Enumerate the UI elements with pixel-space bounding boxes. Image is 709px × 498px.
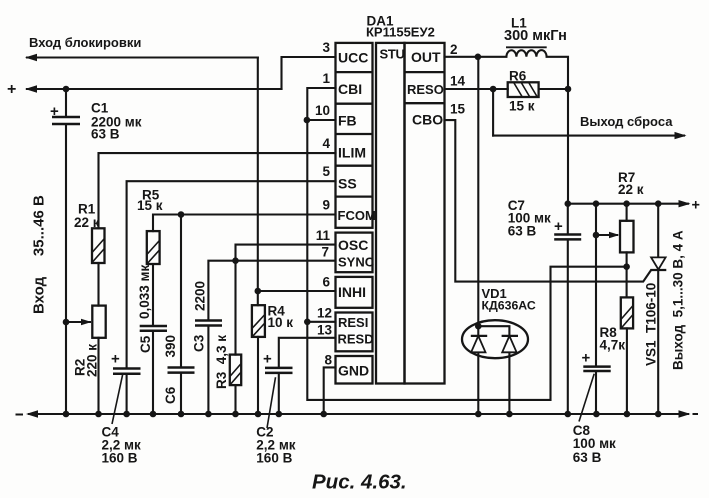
resistor R4	[252, 305, 265, 337]
arrow: blocking input left arrowhead	[25, 54, 37, 61]
capacitor C4	[113, 369, 141, 374]
node: R2 wiper junction	[63, 319, 70, 326]
svg-text:R6: R6	[509, 69, 527, 84]
node: bus VD1 left	[475, 411, 482, 418]
svg-text:22 к: 22 к	[74, 215, 100, 230]
svg-text:Вход 35...46 В: Вход 35...46 В	[31, 195, 48, 314]
svg-text:2200: 2200	[193, 281, 208, 311]
svg-text:С6: С6	[163, 386, 178, 404]
resistor R2 (potentiometer)	[92, 306, 105, 338]
svg-text:15 к: 15 к	[137, 198, 163, 213]
node: bus C7	[565, 411, 572, 418]
wire: C6 branch	[180, 215, 182, 415]
op-amp U1: IC DA1 left pin cell stack UCC..FCOM	[336, 43, 373, 228]
inductor L1 label underline	[506, 46, 547, 48]
op-amp U1: IC DA1 STU middle column	[376, 43, 405, 384]
arrow: bus left arrowhead	[26, 410, 38, 417]
svg-text:Вход блокировки: Вход блокировки	[29, 35, 141, 50]
svg-text:С3: С3	[192, 334, 207, 352]
wire: SYNC pin 7 line to C3	[208, 261, 335, 414]
svg-text:+: +	[692, 198, 700, 214]
arrow: bus right arrowhead	[679, 410, 691, 417]
wire: +input line	[27, 88, 282, 90]
node: input junction C1	[63, 86, 70, 93]
diode VD1 left triangle	[471, 336, 485, 352]
wire: R7 bottom lead to divider node	[626, 252, 628, 266]
wire: R7 wiper arrow line	[596, 234, 617, 236]
wire: minus dash bottom right	[693, 413, 699, 415]
node: output/C7 junction	[565, 200, 572, 207]
op-amp U1: IC DA1 right column	[405, 43, 445, 384]
wire: R8 leads	[626, 267, 628, 414]
wire: R3 bottom to bus	[234, 385, 236, 414]
wire: ILIM pin 4 line to R1 top	[99, 153, 336, 228]
diode VD1 right triangle	[502, 336, 516, 352]
wire: FCOM pin 9 line to R5/C6	[153, 215, 336, 232]
svg-text:63 В: 63 В	[573, 450, 602, 465]
wire: GND pin 8 to bus	[324, 367, 336, 414]
svg-text:22 к: 22 к	[618, 182, 644, 197]
capacitor C6	[168, 368, 195, 373]
node: VD1 cathode junction	[475, 323, 482, 330]
capacitor C1	[52, 117, 80, 124]
svg-text:КД636АС: КД636АС	[482, 299, 536, 313]
wire: +output line	[568, 203, 688, 205]
wire: R1 to R2 link	[97, 263, 99, 306]
wire: SS pin 5 line to C4	[127, 181, 336, 414]
diode VD1 right half cathode bar	[502, 335, 518, 337]
node: L1/R6 right junction	[565, 86, 572, 93]
wire: minus dash bottom left	[16, 414, 24, 416]
node: bus R8	[624, 411, 631, 418]
svg-text:2: 2	[450, 42, 458, 57]
svg-text:+: +	[111, 351, 120, 368]
svg-text:КР1155ЕУ2: КР1155ЕУ2	[366, 25, 435, 40]
wire: OUT pin 2 to L1	[445, 56, 507, 58]
op-amp U1: IC DA1 INHI cell	[336, 277, 373, 308]
node: output/VS1 junction	[655, 200, 662, 207]
svg-text:STU: STU	[380, 47, 405, 62]
svg-text:RESD: RESD	[338, 332, 374, 347]
wire: R2 wiper from ground line	[66, 321, 90, 323]
wire: RESO pin 14 line to R6	[445, 88, 508, 90]
svg-text:0,033 мк: 0,033 мк	[137, 264, 152, 319]
svg-text:RESI: RESI	[338, 315, 368, 330]
svg-text:1: 1	[322, 71, 330, 86]
node: output/R7 junction	[623, 200, 630, 207]
svg-text:UCC: UCC	[338, 50, 368, 66]
wire: OUT down to VD1 cathodes	[477, 57, 479, 336]
arrow: reset output arrowhead	[675, 132, 687, 139]
svg-text:10 к: 10 к	[268, 315, 294, 330]
svg-text:Рис. 4.63.: Рис. 4.63.	[312, 471, 407, 494]
resistor R3	[230, 355, 241, 386]
wire: R7 wiper column to C8	[595, 204, 597, 414]
svg-text:INHI: INHI	[338, 284, 366, 300]
node: INHI/R4 junction	[254, 288, 261, 295]
node: SYNC/R3 junction	[232, 257, 239, 264]
svg-text:10: 10	[315, 103, 330, 118]
node: FCOM/C6 junction	[178, 211, 185, 218]
svg-text:+: +	[50, 103, 59, 120]
arrow: +input left arrowhead	[25, 85, 37, 92]
svg-text:7: 7	[321, 245, 329, 260]
svg-text:С5: С5	[138, 335, 153, 353]
resistor R1	[92, 228, 105, 263]
svg-text:6: 6	[322, 275, 330, 290]
node: bus C4	[123, 411, 130, 418]
resistor R5	[147, 231, 160, 264]
wire: ground bus	[29, 413, 688, 415]
wire: blocking input vertical down to INHI	[257, 58, 259, 292]
wire: +input rise to UCC pin 3	[282, 57, 336, 89]
wire: CBO pin 15 to thyristor gate	[445, 120, 651, 282]
svg-text:160 В: 160 В	[102, 451, 138, 466]
wire: L1 to corner and down to output line	[547, 57, 568, 204]
transistor VS1 (thyristor) cathode bar	[650, 269, 666, 271]
arrow: R2 wiper arrowhead	[81, 319, 92, 326]
wire: INHI pin 6 line	[258, 290, 336, 292]
resistor R7 (potentiometer)	[620, 221, 634, 253]
node: bus R4	[255, 411, 262, 418]
svg-text:12: 12	[317, 306, 332, 321]
svg-text:15 к: 15 к	[509, 99, 535, 114]
node: R7/R8 divider junction	[623, 263, 630, 270]
wire: VD1 anode legs to bus	[478, 352, 509, 414]
svg-text:100 мк: 100 мк	[573, 436, 616, 451]
svg-text:220 к: 220 к	[85, 344, 100, 377]
svg-text:OUT: OUT	[411, 49, 441, 65]
svg-text:4,7к: 4,7к	[600, 338, 626, 353]
wire: C4 label leader	[112, 374, 123, 424]
wire: R5 to C5 link	[152, 264, 154, 414]
svg-text:160 В: 160 В	[256, 451, 292, 466]
node: R7 wiper branch junction	[593, 232, 600, 239]
wire: VS1 cathode lead	[657, 270, 659, 414]
node: output/R7 wiper junction	[593, 200, 600, 207]
wire: C7 branch	[567, 204, 569, 414]
resistor R8	[621, 297, 633, 328]
svg-text:8: 8	[324, 353, 332, 368]
node: bus GND pin	[320, 411, 327, 418]
node: RESI junction	[304, 319, 311, 326]
svg-text:Выход сброса: Выход сброса	[580, 114, 673, 129]
wire: R7 top lead	[626, 204, 628, 221]
wire: VS1 anode lead	[657, 204, 659, 258]
wire: reset output drop	[492, 89, 494, 136]
node: bus C8	[593, 411, 600, 418]
op-amp U1: IC DA1 GND cell	[336, 356, 373, 384]
node: bus C5	[150, 411, 157, 418]
wire: Вход блокировки input line	[27, 56, 258, 58]
svg-text:SS: SS	[338, 176, 357, 192]
svg-text:390: 390	[163, 335, 178, 358]
inductor L1	[506, 50, 546, 57]
wire: RESD pin 13 line to C2	[279, 338, 336, 414]
svg-text:FB: FB	[338, 113, 357, 129]
svg-text:14: 14	[450, 74, 466, 89]
wire: C2 label leader	[267, 377, 276, 428]
wire: CBI pin 1 link	[307, 88, 335, 120]
op-amp U1: IC DA1 OSC/SYNC cell	[336, 233, 373, 273]
node: bus C6	[178, 411, 185, 418]
capacitor C3	[195, 321, 222, 326]
svg-text:CBI: CBI	[338, 81, 362, 97]
svg-text:4: 4	[322, 136, 330, 151]
node: bus C3	[205, 411, 212, 418]
wire: C8 label leader	[579, 374, 594, 422]
wire: VD1 cathode tie bar	[478, 326, 509, 336]
svg-text:11: 11	[316, 228, 331, 243]
capacitor C8	[583, 367, 610, 371]
wire: R4 column	[257, 291, 259, 414]
svg-text:VS1 Т106-10: VS1 Т106-10	[644, 283, 659, 366]
diode VD1 (dual diode) outline	[462, 320, 528, 358]
wire: FB pin 10 stub	[307, 119, 336, 121]
svg-text:+: +	[582, 350, 591, 367]
svg-text:300 мкГн: 300 мкГн	[504, 28, 567, 44]
svg-text:9: 9	[322, 198, 330, 213]
wire: feedback vertical and run to divider	[307, 120, 626, 400]
wire: RESI pin 12 stub	[307, 321, 335, 323]
node: bus C1	[63, 411, 70, 418]
svg-text:С1: С1	[91, 101, 109, 116]
svg-text:63 В: 63 В	[91, 127, 120, 142]
node: OUT/L1 junction	[475, 54, 482, 61]
node: bus R2	[95, 411, 102, 418]
node: bus VD1 right	[506, 411, 513, 418]
svg-text:CBO: CBO	[412, 112, 443, 128]
op-amp U1: IC DA1 OUT cell divider	[405, 71, 445, 73]
resistor R6	[508, 82, 539, 97]
svg-text:13: 13	[317, 323, 333, 338]
svg-text:RESO: RESO	[407, 82, 444, 97]
svg-text:+: +	[7, 81, 16, 98]
svg-text:+: +	[554, 218, 563, 235]
svg-text:ILIM: ILIM	[338, 145, 366, 161]
node: bus VS1	[655, 411, 662, 418]
svg-text:63 В: 63 В	[508, 224, 537, 239]
node: RESO/R6 junction	[490, 86, 497, 93]
wire: Выход сброса line	[493, 135, 684, 137]
svg-text:3: 3	[322, 40, 330, 55]
wire: R2 bottom to ground bus	[97, 338, 99, 414]
op-amp U1: IC DA1 RESO cell divider	[405, 102, 445, 104]
svg-text:GND: GND	[338, 363, 369, 379]
wire: R6 right lead to corner	[539, 88, 568, 90]
capacitor C2	[265, 368, 293, 373]
wire: OSC pin 11 line to R3 column	[236, 245, 336, 355]
diode VD1 left half cathode bar	[471, 335, 487, 337]
capacitor C5	[140, 326, 167, 331]
wire: C1 branch vertical	[65, 89, 67, 414]
svg-text:OSC: OSC	[338, 237, 368, 253]
svg-text:FCOM: FCOM	[338, 208, 376, 223]
node: bus C2	[276, 411, 283, 418]
svg-text:Выход 5,1...30 В, 4 А: Выход 5,1...30 В, 4 А	[671, 230, 686, 370]
transistor VS1 triangle	[651, 257, 666, 269]
svg-text:15: 15	[450, 102, 466, 117]
svg-text:+: +	[263, 351, 272, 368]
op-amp U1: IC DA1 RESI/RESD cell	[336, 313, 373, 352]
svg-text:SYNC: SYNC	[338, 255, 375, 270]
svg-text:5: 5	[322, 164, 330, 179]
arrow: R7 wiper arrowhead	[609, 232, 620, 239]
arrow: +output arrowhead	[679, 200, 691, 207]
svg-text:R3 4,3 к: R3 4,3 к	[214, 335, 229, 389]
node: bus R3	[232, 411, 239, 418]
capacitor C7	[554, 235, 581, 240]
node: FB junction	[304, 117, 311, 124]
